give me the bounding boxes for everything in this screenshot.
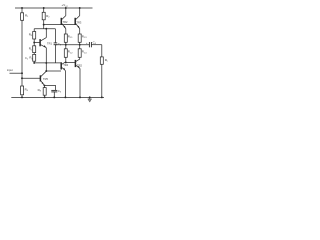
svg-text:TR3: TR3 xyxy=(76,20,81,24)
svg-text:TR2: TR2 xyxy=(63,20,68,24)
svg-text:RC3: RC3 xyxy=(82,34,88,39)
svg-text:R8: R8 xyxy=(38,88,42,93)
svg-text:R3: R3 xyxy=(29,32,33,37)
svg-text:C1: C1 xyxy=(25,56,29,61)
svg-text:TR2: TR2 xyxy=(77,63,82,67)
svg-text:+VCC: +VCC xyxy=(62,3,69,8)
svg-text:TR1: TR1 xyxy=(47,42,52,46)
svg-text:R1: R1 xyxy=(25,13,29,18)
svg-text:RL: RL xyxy=(105,58,109,63)
svg-text:C2: C2 xyxy=(58,42,62,47)
svg-text:R5: R5 xyxy=(29,47,33,52)
svg-text:R2: R2 xyxy=(46,14,50,19)
svg-text:C3: C3 xyxy=(58,89,62,94)
svg-text:input: input xyxy=(7,68,13,72)
svg-text:RC1: RC1 xyxy=(68,34,74,39)
svg-text:RC2: RC2 xyxy=(68,50,74,55)
svg-text:RC4: RC4 xyxy=(82,50,88,55)
svg-text:TR4: TR4 xyxy=(63,63,68,67)
svg-text:TR5: TR5 xyxy=(43,77,48,81)
svg-text:R4: R4 xyxy=(25,87,29,92)
